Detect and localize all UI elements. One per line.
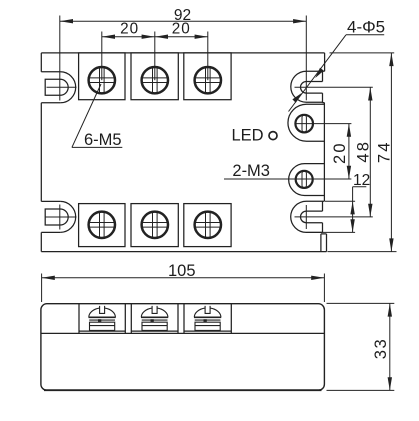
dim 12 leader and line bbox=[306, 187, 366, 233]
dim 20 line top bbox=[102, 32, 208, 81]
label 6-M5 leader bbox=[72, 84, 122, 147]
screw M5 top 2 bbox=[142, 67, 168, 93]
dim 74 extension top bbox=[330, 52, 395, 54]
dim 92 arrow left bbox=[60, 19, 73, 23]
svg-text:6-M5: 6-M5 bbox=[84, 131, 122, 149]
screw M3 2 centerline (extends under 2-M3 label) bbox=[224, 178, 351, 180]
left mounting slot top: centerline bbox=[47, 86, 77, 88]
terminal square bottom 2 bbox=[131, 204, 178, 247]
screw M5 top 1 bbox=[89, 67, 115, 93]
dim 33 extension bottom bbox=[327, 389, 395, 391]
left mounting slot top: outer arc bbox=[60, 72, 76, 103]
dim 92 line bbox=[60, 16, 306, 101]
left mounting slot bottom: centerline vertical bbox=[59, 205, 61, 230]
dim 74 line bbox=[328, 53, 397, 252]
left mounting slot bottom: centerline horizontal bbox=[46, 216, 77, 218]
screw M5 top 3 bbox=[195, 67, 221, 93]
dim 12 extension bottom bbox=[306, 231, 355, 233]
body left edge upper segment bbox=[40, 53, 42, 72]
right mounting ear bottom: boss bbox=[291, 201, 325, 232]
body left edge lower segment bbox=[40, 232, 42, 251]
washer M3 screw 2 bbox=[289, 164, 325, 196]
terminal square bottom 3 bbox=[184, 204, 231, 247]
dim 33 extension top bbox=[327, 302, 395, 304]
dim 92 arrow right bbox=[293, 19, 306, 23]
front body outline bbox=[41, 304, 325, 391]
left mounting slot bottom: outer lines bbox=[41, 201, 60, 232]
body left edge middle segment bbox=[40, 103, 42, 202]
front screw 3 bbox=[194, 306, 221, 331]
right mounting ear bottom: centerline horizontal bbox=[295, 216, 373, 218]
svg-text:20: 20 bbox=[331, 141, 349, 164]
right mounting ear top: slot bbox=[301, 82, 323, 94]
dim 20 extensions bbox=[101, 32, 103, 81]
svg-text:20: 20 bbox=[172, 21, 191, 38]
dim 48 line bbox=[369, 87, 371, 217]
front screw 2 bbox=[141, 306, 168, 331]
right flange bottom corner step bbox=[321, 234, 327, 252]
svg-text:105: 105 bbox=[168, 262, 196, 280]
text 105 bbox=[168, 262, 390, 359]
screw M3 1 centerline bbox=[295, 123, 351, 125]
terminal square top 3 bbox=[184, 53, 231, 100]
screw M5 bottom 2 bbox=[142, 212, 168, 238]
svg-text:33: 33 bbox=[372, 338, 390, 359]
dim 105 line bbox=[42, 274, 325, 303]
left mounting slot top: inner U bbox=[45, 79, 68, 95]
washer M3 screw 1 bbox=[288, 104, 324, 141]
right flange edge segments bbox=[323, 53, 325, 233]
svg-text:4-Φ5: 4-Φ5 bbox=[347, 18, 385, 37]
svg-text:12: 12 bbox=[353, 172, 370, 189]
dim 20 right stack (M3 screws spacing) bbox=[348, 124, 350, 179]
front terminal recess 3 bbox=[184, 304, 231, 334]
left mounting slot bottom: outer arc bbox=[60, 201, 76, 232]
dim 74 extension bottom bbox=[328, 251, 397, 253]
right mounting ear bottom: centerline vertical bbox=[305, 205, 307, 229]
dim 105 extension right bbox=[323, 274, 325, 303]
screw M3 2 bbox=[296, 171, 313, 188]
svg-text:LED: LED bbox=[232, 127, 264, 145]
svg-text:20: 20 bbox=[120, 21, 139, 38]
svg-text:2-M3: 2-M3 bbox=[232, 162, 270, 180]
svg-text:48: 48 bbox=[354, 140, 372, 163]
label 4-Phi5 leader bbox=[289, 35, 385, 112]
body top edge bbox=[41, 52, 324, 54]
right mounting ear bottom: slot bbox=[301, 211, 323, 223]
front body parting line bbox=[41, 332, 325, 334]
dim 20 arrows bbox=[102, 35, 115, 39]
dim 33 line bbox=[327, 303, 395, 390]
svg-text:74: 74 bbox=[376, 140, 394, 163]
right mounting ear top: centerline bbox=[295, 86, 373, 88]
screw M5 bottom 1 bbox=[89, 212, 115, 238]
right mounting ear top: boss bbox=[291, 71, 325, 102]
dim 92 extension left bbox=[59, 16, 61, 101]
body bottom edge bbox=[41, 251, 326, 253]
terminal square top 2 bbox=[131, 53, 178, 100]
dim 105 extension left bbox=[41, 274, 43, 303]
front terminal recess 1 bbox=[79, 304, 125, 334]
screw M3 1 bbox=[295, 115, 313, 133]
front screw 1 bbox=[89, 306, 116, 331]
left mounting slot top: outer lines bbox=[41, 72, 60, 103]
terminal square bottom 1 bbox=[79, 204, 125, 247]
screw M5 bottom 3 bbox=[195, 212, 221, 238]
terminal square top 1 bbox=[79, 53, 125, 100]
dim 92 extension right bbox=[305, 16, 307, 101]
LED indicator circle bbox=[269, 132, 277, 140]
label 4-Phi5 leader arrows bbox=[315, 68, 324, 78]
front terminal recess 2 bbox=[131, 304, 178, 334]
front body bottom edge emphasis bbox=[44, 389, 322, 391]
dim 12 extension top bbox=[325, 200, 355, 202]
left mounting slot bottom: inner U bbox=[45, 209, 68, 225]
